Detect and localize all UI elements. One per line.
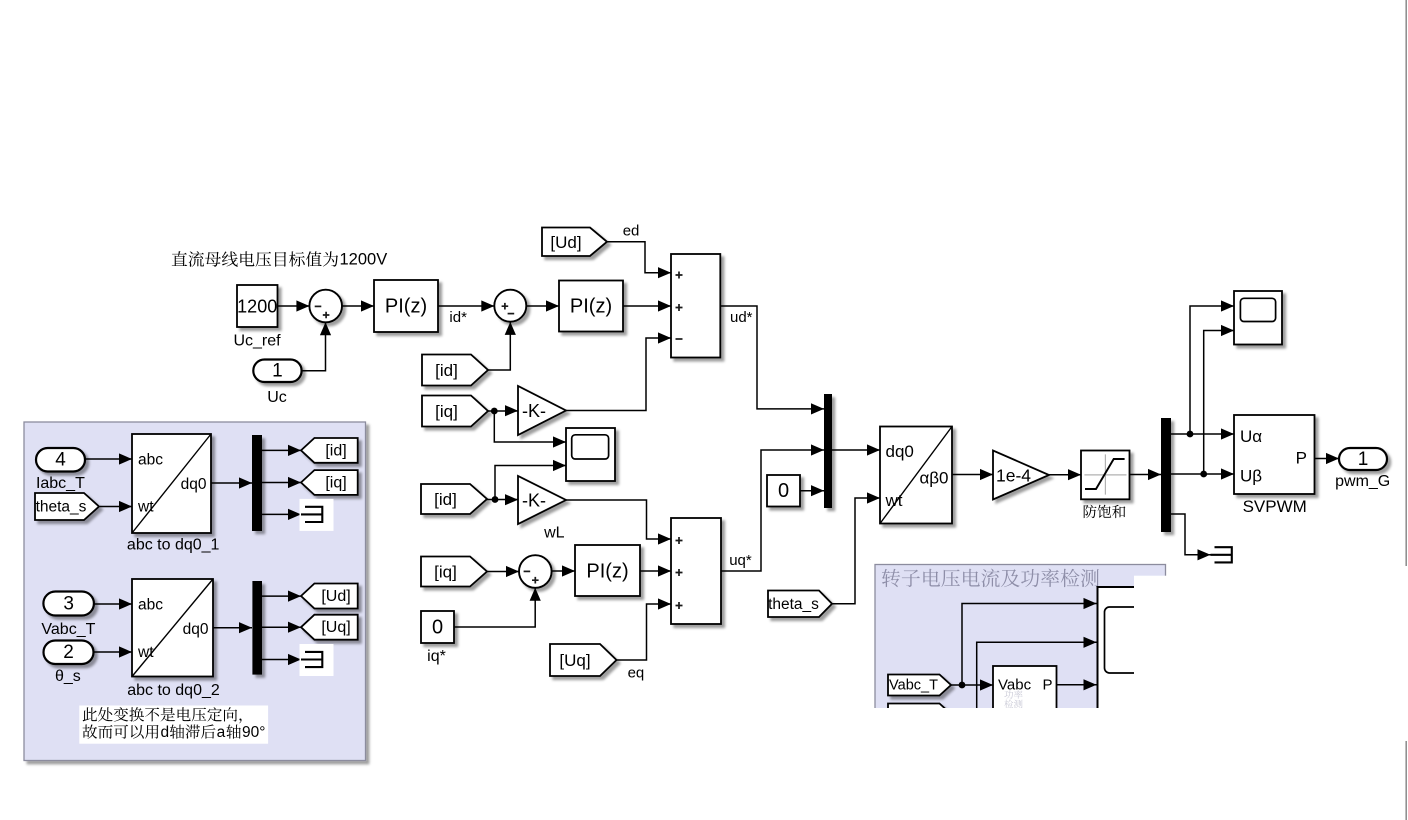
svg-text:1200V: 1200V — [340, 251, 388, 269]
svg-text:[iq]: [iq] — [434, 563, 457, 582]
svg-text:αβ0: αβ0 — [919, 468, 948, 487]
svg-text:PI(z): PI(z) — [586, 561, 628, 583]
svg-text:1: 1 — [272, 361, 283, 382]
svg-text:wt: wt — [885, 491, 903, 510]
svg-text:0: 0 — [432, 617, 443, 639]
svg-text:a: a — [217, 724, 226, 741]
svg-text:theta_s: theta_s — [768, 596, 819, 613]
svg-text:pwm_G: pwm_G — [1335, 473, 1390, 490]
svg-text:-K-: -K- — [522, 401, 546, 421]
svg-text:1200: 1200 — [237, 297, 277, 317]
svg-text:PI(z): PI(z) — [570, 296, 612, 318]
svg-text:3: 3 — [63, 594, 74, 615]
svg-text:Vabc_T: Vabc_T — [889, 678, 938, 694]
svg-text:θ_s: θ_s — [55, 668, 81, 685]
svg-text:SVPWM: SVPWM — [1243, 497, 1307, 516]
svg-text:abc to dq0_1: abc to dq0_1 — [127, 537, 220, 554]
svg-text:Uβ: Uβ — [1240, 467, 1262, 486]
svg-text:1: 1 — [1358, 449, 1369, 470]
svg-text:0: 0 — [778, 480, 789, 502]
svg-text:4: 4 — [55, 450, 66, 471]
svg-text:uq*: uq* — [729, 552, 752, 569]
svg-text:id*: id* — [449, 309, 467, 326]
svg-text:eq: eq — [628, 665, 645, 682]
svg-text:2: 2 — [63, 642, 74, 663]
svg-text:abc: abc — [138, 597, 163, 614]
svg-text:theta_s: theta_s — [36, 498, 87, 515]
svg-text:[id]: [id] — [435, 361, 458, 380]
svg-text:abc: abc — [138, 452, 163, 469]
svg-text:Uc_ref: Uc_ref — [233, 333, 281, 350]
svg-text:ed: ed — [623, 223, 640, 240]
svg-text:iq*: iq* — [427, 648, 446, 665]
svg-text:Vabc: Vabc — [998, 677, 1032, 694]
svg-text:[id]: [id] — [434, 490, 457, 509]
svg-text:[Uq]: [Uq] — [559, 651, 590, 670]
svg-text:dq0: dq0 — [183, 621, 209, 638]
svg-text:P: P — [1042, 677, 1052, 694]
svg-text:[id]: [id] — [325, 442, 346, 459]
svg-text:dq0: dq0 — [886, 442, 914, 461]
svg-text:Uα: Uα — [1240, 427, 1262, 446]
svg-text:[Ud]: [Ud] — [321, 588, 350, 605]
svg-text:wL: wL — [543, 525, 565, 542]
svg-text:ud*: ud* — [730, 309, 753, 326]
svg-text:Vabc_T: Vabc_T — [41, 621, 95, 638]
svg-text:[Uq]: [Uq] — [321, 619, 350, 636]
svg-text:Iabc_T: Iabc_T — [36, 475, 85, 492]
svg-text:PI(z): PI(z) — [385, 296, 427, 318]
svg-text:-K-: -K- — [522, 490, 546, 510]
svg-text:[iq]: [iq] — [325, 474, 346, 491]
svg-text:[iq]: [iq] — [435, 402, 458, 421]
svg-text:P: P — [1296, 449, 1307, 468]
svg-text:d: d — [161, 724, 170, 741]
svg-text:90°: 90° — [242, 724, 265, 741]
svg-text:1e-4: 1e-4 — [996, 465, 1031, 485]
svg-text:dq0: dq0 — [181, 476, 207, 493]
svg-text:wt: wt — [137, 499, 154, 516]
svg-text:abc to dq0_2: abc to dq0_2 — [127, 682, 220, 699]
svg-text:wt: wt — [137, 644, 154, 661]
svg-text:Uc: Uc — [267, 389, 287, 406]
svg-text:[Ud]: [Ud] — [550, 233, 581, 252]
